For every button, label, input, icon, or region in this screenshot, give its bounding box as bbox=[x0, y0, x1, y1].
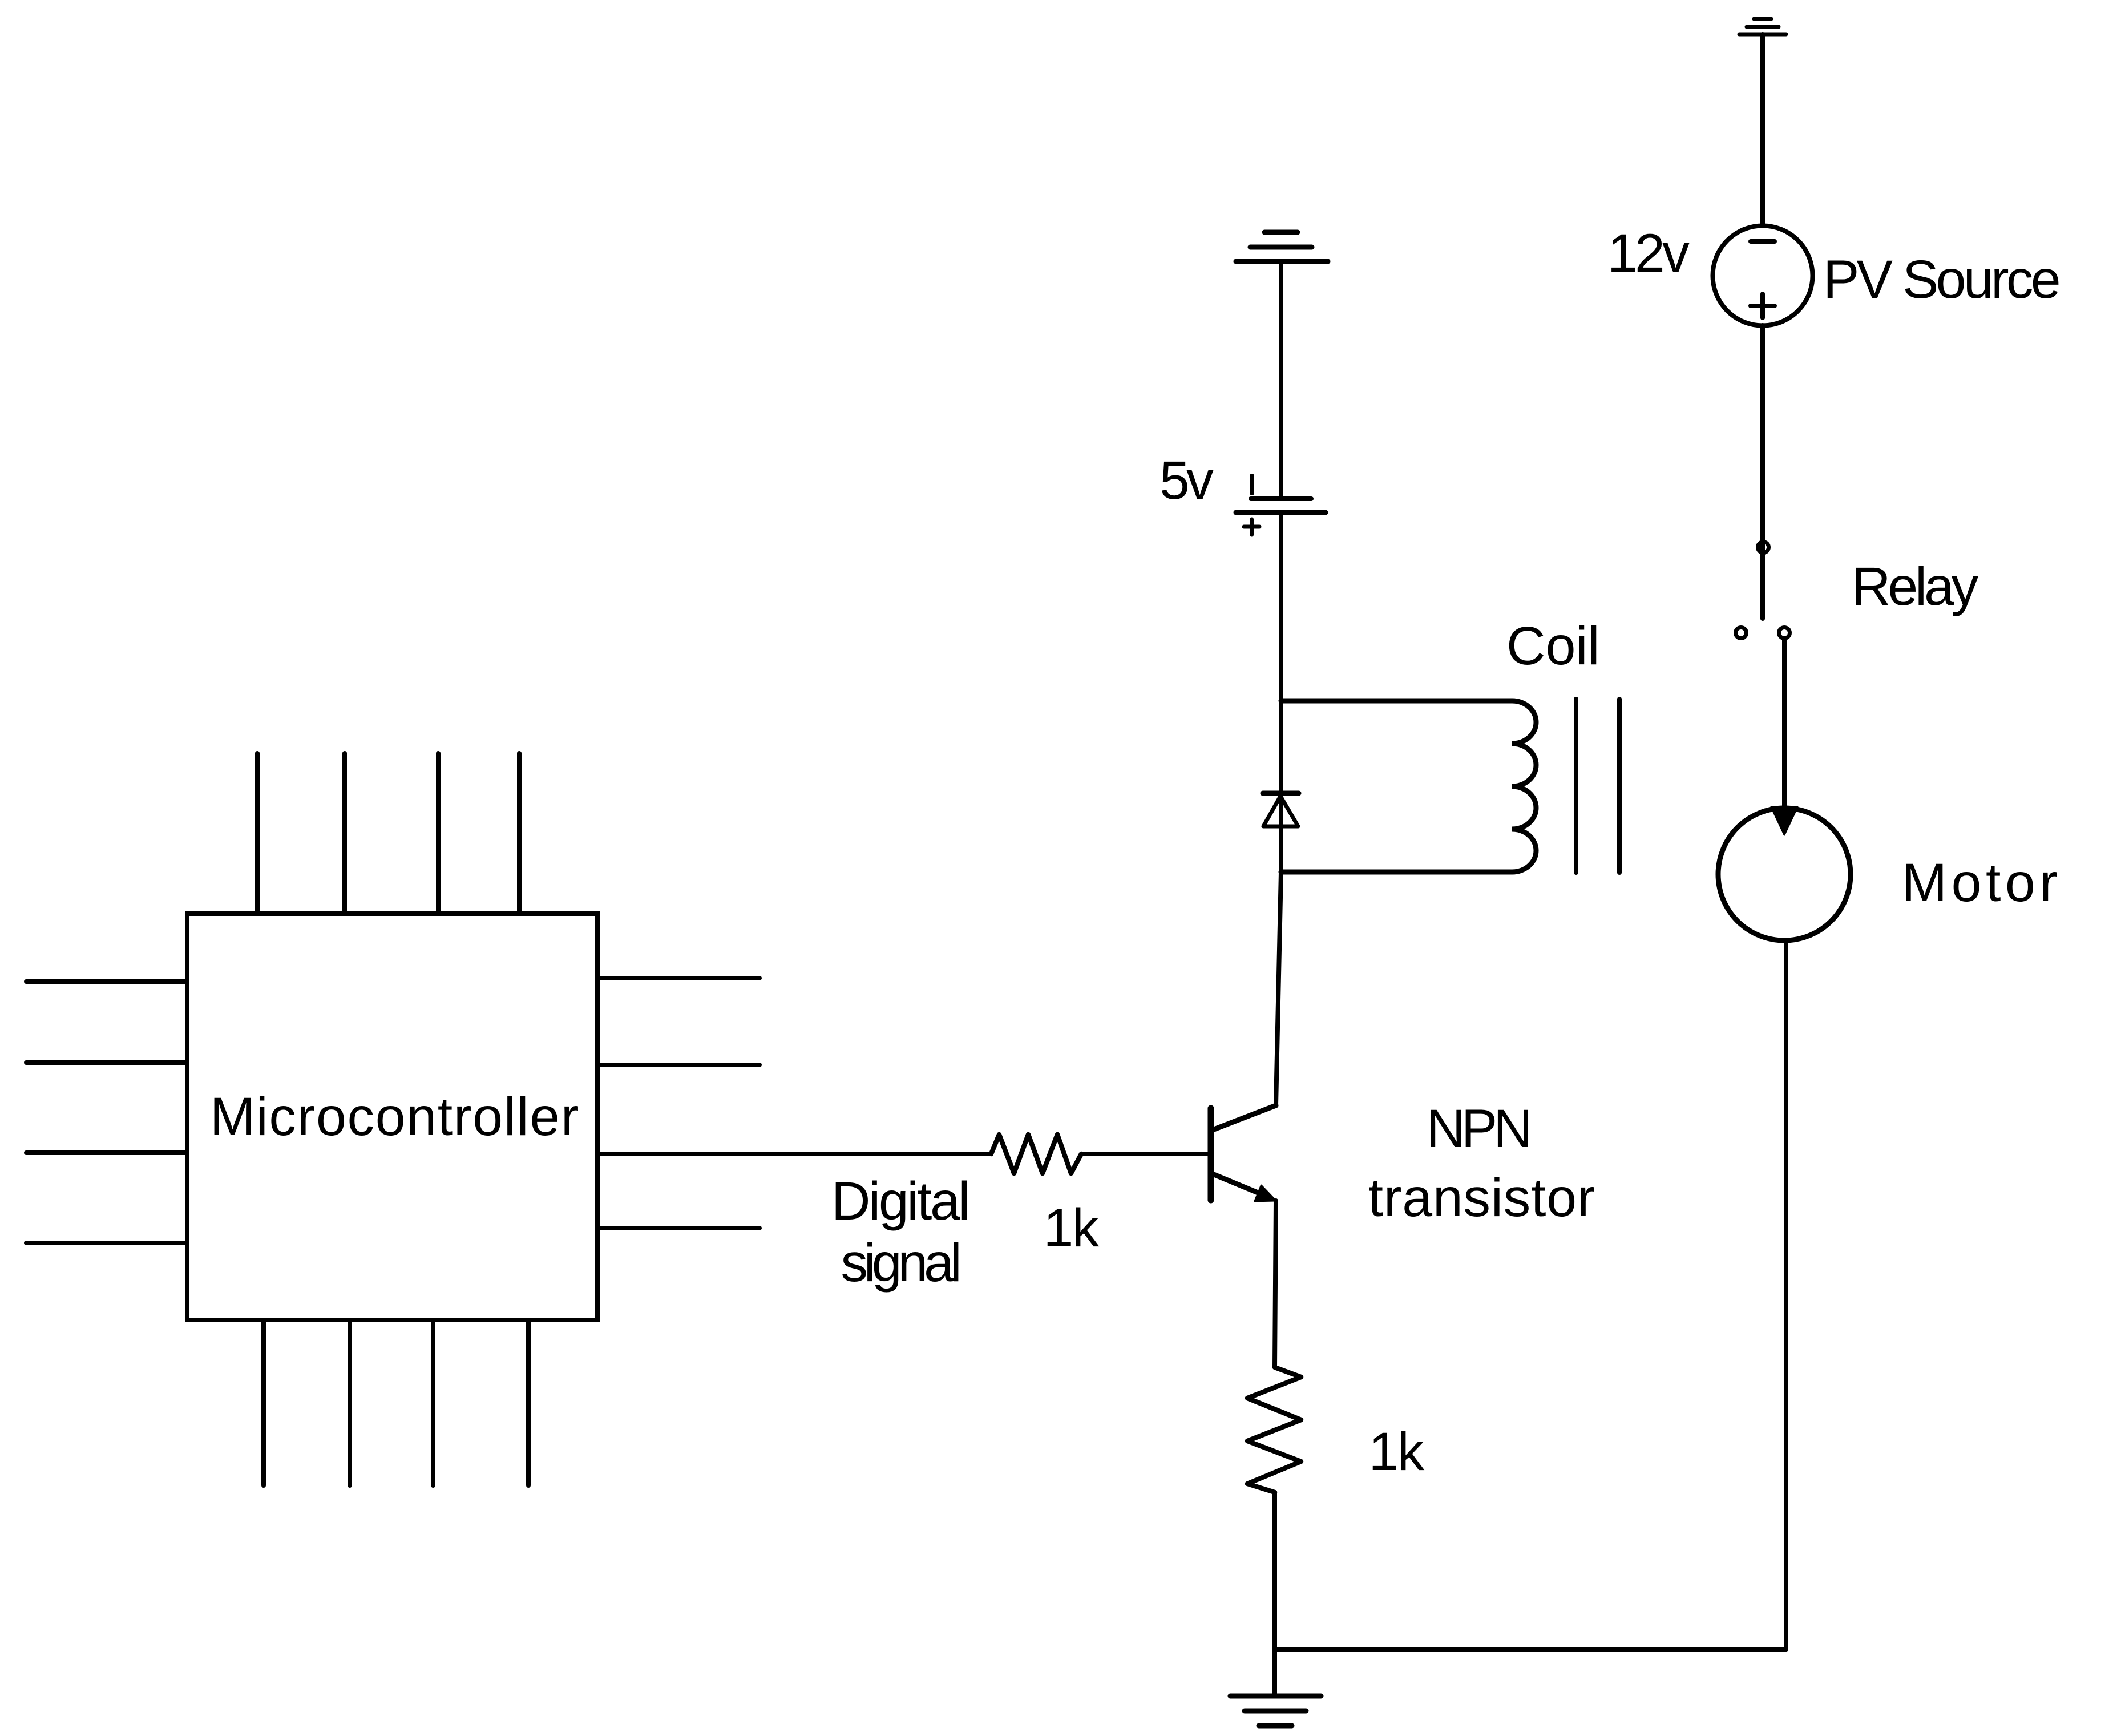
wire battery to coil top junction bbox=[1279, 512, 1283, 872]
svg-text:signal: signal bbox=[841, 1233, 958, 1293]
diode D1 triangle bbox=[1263, 796, 1298, 826]
transistor Q1 emitter slant bbox=[1213, 1174, 1270, 1198]
wire digital signal from MCU to R1 bbox=[597, 1152, 991, 1156]
svg-text:PV Source: PV Source bbox=[1823, 249, 2059, 310]
relay contact right bbox=[1779, 628, 1790, 639]
relay contact left bbox=[1736, 628, 1747, 639]
PV source V1 circle bbox=[1713, 226, 1813, 326]
svg-text:1k: 1k bbox=[1369, 1422, 1425, 1482]
microcontroller U1 body bbox=[187, 914, 597, 1320]
svg-text:1k: 1k bbox=[1044, 1198, 1100, 1258]
ground top middle (inverted, 5v branch) bbox=[1236, 232, 1328, 261]
pin top 4 bbox=[517, 753, 522, 914]
wire relay contact to motor bbox=[1782, 640, 1787, 808]
PV source minus sign bbox=[1751, 239, 1775, 244]
wire bottom rail bbox=[1275, 1647, 1786, 1652]
battery B1 5v minus tick bbox=[1250, 476, 1254, 493]
resistor R2 1k (emitter resistor) bbox=[1247, 1367, 1301, 1492]
pin top 1 bbox=[255, 753, 260, 914]
svg-text:Microcontroller: Microcontroller bbox=[210, 1087, 580, 1147]
pin right 1 bbox=[597, 976, 759, 980]
svg-text:Digital: Digital bbox=[831, 1171, 968, 1232]
battery B1 short plate bbox=[1251, 496, 1311, 501]
wire ground stub bbox=[1272, 1649, 1277, 1694]
transistor Q1 collector slant bbox=[1213, 1105, 1276, 1130]
pin left 2 bbox=[26, 1060, 187, 1065]
relay pivot contact circle bbox=[1758, 542, 1769, 553]
relay core line 2 bbox=[1617, 699, 1622, 873]
diode D1 cathode bar bbox=[1263, 791, 1299, 796]
svg-text:Motor: Motor bbox=[1902, 853, 2062, 913]
svg-text:Relay: Relay bbox=[1852, 556, 1979, 617]
motor M1 circle bbox=[1718, 808, 1851, 940]
svg-text:transistor: transistor bbox=[1368, 1168, 1596, 1228]
pin right 2 bbox=[597, 1063, 759, 1067]
pin right 4 bbox=[597, 1226, 759, 1230]
pin top 3 bbox=[436, 753, 441, 914]
relay coil L1 bbox=[1281, 701, 1536, 872]
svg-text:5v: 5v bbox=[1160, 450, 1214, 511]
pin bottom 4 bbox=[526, 1320, 531, 1485]
wire ground to battery bbox=[1279, 261, 1283, 497]
battery B1 long plate bbox=[1236, 510, 1326, 515]
wire collector up to coil bottom junction bbox=[1276, 872, 1281, 1105]
svg-text:Coil: Coil bbox=[1506, 616, 1600, 676]
transistor Q1 base bar bbox=[1208, 1108, 1214, 1200]
pin left 3 bbox=[26, 1150, 187, 1155]
wire R2 to ground node bbox=[1272, 1492, 1277, 1649]
svg-text:12v: 12v bbox=[1607, 223, 1690, 284]
PV source plus sign bbox=[1751, 294, 1775, 318]
pin bottom 2 bbox=[348, 1320, 352, 1485]
pin bottom 1 bbox=[261, 1320, 266, 1485]
pin top 2 bbox=[342, 753, 347, 914]
motor arrow bbox=[1771, 807, 1797, 835]
wire PV source to top ground bbox=[1760, 34, 1765, 225]
wire emitter down to R2 bbox=[1275, 1201, 1276, 1367]
resistor R1 1k (base resistor) bbox=[991, 1135, 1081, 1173]
pin left 1 bbox=[26, 979, 187, 984]
relay core line 1 bbox=[1574, 699, 1578, 873]
pin left 4 bbox=[26, 1241, 187, 1245]
ground top right (inverted) bbox=[1739, 19, 1786, 34]
ground bottom bbox=[1230, 1696, 1321, 1726]
wire motor bottom to rail bbox=[1784, 940, 1788, 1649]
pin bottom 3 bbox=[431, 1320, 435, 1485]
transistor Q1 emitter arrow bbox=[1255, 1185, 1276, 1201]
wire R1 to base bbox=[1081, 1152, 1209, 1156]
relay switch wire (blade) bbox=[1760, 325, 1765, 619]
svg-text:NPN: NPN bbox=[1427, 1099, 1529, 1159]
battery B1 plus sign bbox=[1244, 519, 1259, 535]
